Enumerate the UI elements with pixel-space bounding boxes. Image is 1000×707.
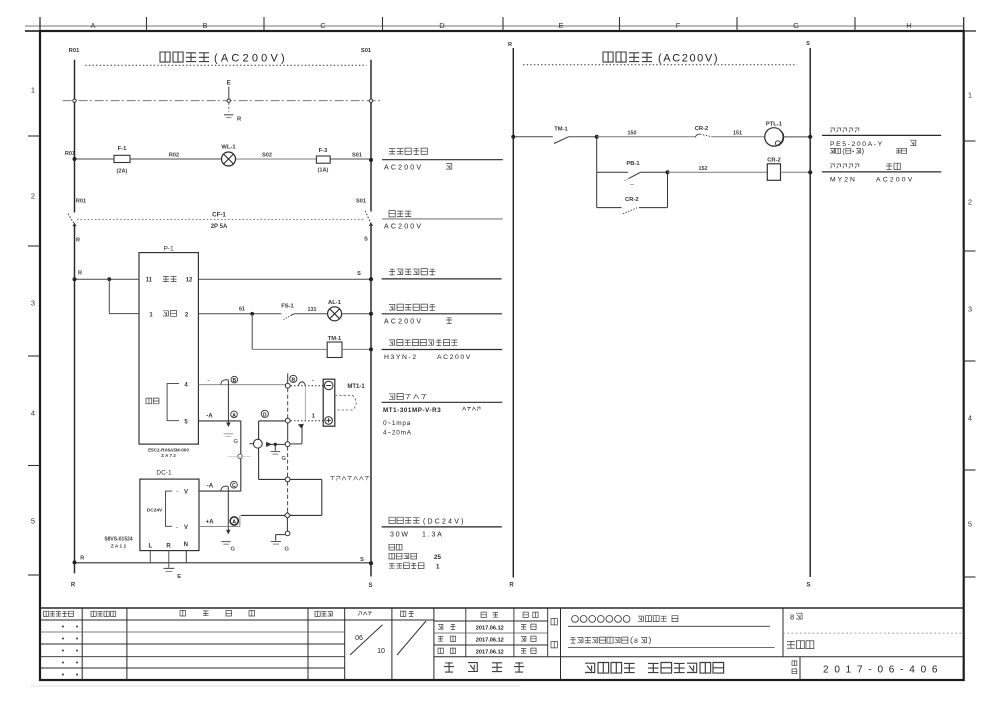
svg-text:P-1: P-1	[163, 246, 174, 253]
svg-text:4: 4	[968, 414, 972, 423]
branch from rung to P-1 terminal 1	[108, 279, 110, 313]
revision header 訂正記号	[91, 611, 96, 616]
svg-text:S01: S01	[361, 48, 372, 54]
revision rows date dots	[62, 626, 64, 628]
svg-text:S01: S01	[352, 153, 362, 159]
approval row 3 check	[438, 648, 443, 653]
title dotted underline	[85, 64, 366, 66]
svg-text:151: 151	[733, 130, 742, 136]
cable marker circle on wire 4	[231, 376, 238, 383]
cable marker circle DC bottom (bold)	[230, 517, 238, 525]
svg-text:PB-1: PB-1	[626, 161, 640, 167]
svg-text:5: 5	[968, 520, 972, 529]
wire label 131	[294, 313, 328, 315]
svg-text:12: 12	[186, 278, 193, 284]
rung 1 power indicator wire	[76, 158, 114, 160]
revision table row lines	[40, 631, 345, 633]
terminal circle mid	[285, 442, 290, 447]
svg-text:A: A	[232, 413, 236, 419]
svg-text:150: 150	[628, 130, 637, 136]
svg-text:Z A 7 2: Z A 7 2	[161, 453, 176, 458]
DC-1 R terminal to earth E	[168, 551, 170, 568]
drawing title cooling water pressure alarm panel	[570, 637, 576, 643]
revision table verticals	[81, 608, 83, 680]
svg-text:F: F	[676, 21, 681, 30]
ground R (earth symbol)	[224, 114, 234, 116]
annotation control power DC24V	[389, 517, 395, 523]
right grid ticks	[964, 140, 976, 142]
svg-text:WL-1: WL-1	[221, 145, 236, 151]
svg-text:(DC24V): (DC24V)	[423, 518, 466, 525]
drain loop with arrow at mid terminal	[266, 443, 285, 445]
svg-text:R: R	[76, 238, 80, 244]
drawing type 回路図	[787, 641, 795, 648]
svg-text:Z A 1 2: Z A 1 2	[111, 544, 127, 550]
bus S vertical (right section)	[809, 48, 811, 577]
svg-text:S: S	[806, 41, 810, 47]
alarm lamp AL-1	[328, 307, 342, 321]
wire 5 drop to DC supply	[240, 421, 242, 491]
svg-text:-A: -A	[206, 412, 213, 419]
circuit breaker CF-1 right pole	[365, 211, 371, 224]
svg-text:H3YN-2: H3YN-2	[384, 354, 418, 361]
svg-text:8: 8	[790, 612, 794, 621]
svg-text:S: S	[364, 237, 368, 243]
cable marker circle net D	[261, 410, 268, 417]
svg-text:R01: R01	[65, 151, 75, 157]
title block top line	[40, 607, 964, 609]
svg-text:S01: S01	[356, 199, 366, 205]
sensor terminal circle minus wire	[285, 383, 290, 388]
svg-text:-: -	[176, 488, 178, 495]
relay rung CR-2	[596, 137, 598, 173]
junction dot R01 rung1	[73, 157, 77, 161]
svg-text:CR-2: CR-2	[767, 157, 781, 163]
svg-text:H: H	[906, 21, 911, 30]
svg-text:-: -	[176, 524, 178, 531]
revision header 訂正者	[315, 611, 320, 616]
svg-text:R01: R01	[76, 199, 86, 205]
junction dot S01 rung1	[369, 158, 373, 162]
annotation delay timer	[389, 340, 395, 345]
power supply block DC-1	[140, 479, 199, 550]
DC-1 internal bracket	[166, 491, 173, 526]
relay coil CR-2	[767, 164, 780, 181]
svg-text:2017.06.12: 2017.06.12	[476, 650, 504, 656]
svg-text:4: 4	[31, 409, 35, 418]
scale column header and slash	[401, 611, 406, 616]
right title dotted underline	[523, 64, 797, 66]
svg-text:L: L	[148, 543, 152, 549]
svg-text:11: 11	[146, 278, 153, 284]
third angle projection 第三角法	[444, 662, 454, 672]
svg-text:3: 3	[968, 305, 972, 314]
approval table rows	[434, 620, 548, 622]
svg-text:(AC200V): (AC200V)	[214, 53, 288, 65]
svg-text:TM-1: TM-1	[554, 126, 568, 132]
dotted divider	[783, 632, 964, 634]
shield line DC pair	[227, 487, 229, 531]
earth tie line (chain line)	[63, 100, 381, 102]
svg-text:AC200V: AC200V	[876, 176, 915, 183]
approval row 2 draft	[438, 637, 443, 642]
svg-text:AC200V: AC200V	[384, 223, 423, 230]
terminal circle bottom of shield chain	[285, 531, 290, 536]
circuit breaker CF-1 left pole	[68, 214, 74, 224]
company name ikeda denki koji	[585, 663, 595, 672]
svg-text:R: R	[71, 583, 76, 589]
shield hook on wire 4	[221, 380, 229, 385]
annotation patrol light	[831, 128, 835, 132]
svg-text:FS-1: FS-1	[281, 303, 294, 309]
svg-text:A: A	[90, 21, 95, 30]
svg-text:CR-2: CR-2	[695, 126, 709, 132]
svg-text:AL-1: AL-1	[328, 300, 342, 306]
svg-text:B: B	[232, 378, 236, 384]
svg-text:1: 1	[968, 91, 972, 100]
svg-text:E: E	[227, 81, 231, 87]
svg-text:C: C	[320, 21, 326, 30]
svg-text:-A: -A	[207, 483, 214, 490]
revision header 訂正年月日	[44, 611, 49, 616]
svg-text:S: S	[357, 271, 361, 277]
left section title 制御電源(AC200V)	[160, 52, 170, 62]
rung power to P-1 (terminal 11 and 12)	[76, 278, 139, 280]
patrol light rung	[513, 136, 553, 138]
terminal circle on R01 bus	[73, 99, 76, 102]
svg-text:+A: +A	[205, 518, 214, 525]
svg-text:(AC200V): (AC200V)	[658, 53, 719, 65]
pressure sensor MT1-1	[323, 379, 335, 426]
bottom supply rung	[76, 562, 371, 564]
annotation patrol light stop	[831, 164, 835, 168]
annotation power indicator lamp	[389, 149, 395, 154]
svg-text:8: 8	[634, 638, 638, 645]
hop arc and drain near sensor	[298, 382, 305, 385]
fuse F-2	[316, 156, 330, 163]
controller block P-1	[139, 253, 198, 445]
svg-text:5: 5	[31, 517, 35, 526]
svg-text:R02: R02	[169, 153, 179, 159]
rung pressure alarm output	[198, 313, 281, 315]
svg-text:D: D	[263, 412, 267, 418]
svg-text:2017.06.12: 2017.06.12	[476, 638, 504, 644]
svg-text:AC200V: AC200V	[384, 318, 423, 325]
svg-text:3: 3	[31, 299, 35, 308]
node E earth tap	[227, 99, 230, 102]
lamp WL-1	[222, 152, 236, 166]
svg-text:E: E	[177, 574, 181, 580]
ground G DC shield	[221, 541, 230, 543]
svg-text:G: G	[231, 547, 236, 553]
timer coil TM-1	[327, 342, 342, 358]
svg-text:2 0 1 7 - 0 6 - 4 0 6: 2 0 1 7 - 0 6 - 4 0 6	[823, 665, 939, 676]
system label 8系	[782, 608, 784, 657]
sensor wire from terminal 4	[198, 384, 287, 386]
approval row 1 design	[438, 624, 443, 629]
patrol light PTL-1	[765, 128, 783, 146]
cable marker circle DC top	[231, 481, 238, 488]
page column header and 06/10	[358, 612, 361, 616]
svg-text:TM-1: TM-1	[328, 336, 342, 342]
dotted wire to sensor minus terminal	[291, 385, 325, 387]
svg-text:06: 06	[355, 635, 363, 642]
svg-text:E: E	[558, 21, 563, 30]
svg-text:DC24V: DC24V	[147, 508, 163, 514]
shield chain vertical	[287, 388, 289, 418]
title block long row line	[434, 656, 964, 658]
svg-text:S02: S02	[262, 153, 272, 159]
svg-text:G: G	[282, 456, 287, 462]
svg-text:V: V	[184, 489, 188, 495]
approval table verticals	[465, 608, 467, 657]
svg-text:4~20mA: 4~20mA	[383, 430, 412, 437]
DC-1 +V wire to sensor loop	[199, 490, 241, 492]
net D terminal circle	[285, 418, 290, 423]
svg-text:131: 131	[308, 307, 317, 313]
diamond node jumper bottom	[284, 512, 290, 518]
revision header 訂正事項	[180, 611, 186, 617]
scan ghost line below frame	[30, 685, 520, 687]
svg-text:PE5-200A-Y: PE5-200A-Y	[830, 141, 884, 148]
svg-text:2: 2	[31, 192, 35, 201]
svg-text:2: 2	[968, 198, 972, 207]
svg-text:152: 152	[699, 166, 708, 172]
svg-text:G: G	[234, 439, 239, 445]
self hold contact CR-2 parallel branch	[596, 172, 598, 207]
svg-text:1: 1	[436, 563, 440, 570]
svg-text:G: G	[285, 547, 290, 553]
svg-text:G: G	[793, 21, 799, 30]
svg-text:61: 61	[239, 306, 245, 312]
cable marker circle near sensor minus	[290, 375, 297, 382]
svg-text:R: R	[166, 543, 171, 549]
svg-text:S8VS-01524: S8VS-01524	[104, 537, 133, 543]
DC-1 L terminal wire	[149, 551, 151, 563]
wire net D to left and down	[259, 420, 286, 422]
svg-text:D: D	[439, 21, 445, 30]
terminal circle jumper top	[285, 477, 290, 482]
circuit breaker CF-1 link line	[77, 219, 363, 221]
junction dot rung1 right	[595, 135, 599, 139]
svg-text:(2A): (2A)	[117, 169, 128, 175]
cable sheath crossing circle	[238, 454, 243, 459]
revision table header bottom	[40, 619, 434, 621]
junction dot TM branch	[250, 312, 254, 316]
approval header date / name	[481, 612, 486, 617]
svg-text:30W: 30W	[390, 532, 410, 539]
terminal circle on S01 bus	[369, 99, 372, 102]
sensor dome	[335, 395, 356, 410]
svg-text:B: B	[291, 377, 295, 383]
svg-text:R: R	[509, 583, 514, 589]
svg-text:AC200V: AC200V	[384, 164, 423, 171]
drawing number cell	[799, 657, 801, 680]
svg-text:(1A): (1A)	[318, 168, 329, 174]
annotation cooling water pressure gauge	[389, 269, 395, 275]
svg-text:2017.06.12: 2017.06.12	[476, 626, 504, 632]
svg-text:E5C2-RX6A5M-000: E5C2-RX6A5M-000	[148, 447, 189, 452]
svg-text:V: V	[184, 525, 188, 531]
junction dot PB parallel	[666, 170, 670, 174]
svg-text:N: N	[184, 542, 188, 548]
svg-text:CF-1: CF-1	[212, 212, 226, 219]
svg-text:25: 25	[434, 554, 441, 561]
svg-text:R01: R01	[69, 48, 80, 54]
svg-text:MY2N: MY2N	[830, 176, 857, 183]
svg-text:MT1-1: MT1-1	[347, 384, 365, 390]
svg-text:F-1: F-1	[118, 146, 127, 152]
svg-text:1: 1	[31, 86, 35, 95]
svg-text:R: R	[80, 555, 84, 561]
left grid ticks	[28, 135, 40, 137]
annotation load list	[389, 544, 395, 550]
svg-text:PTL-1: PTL-1	[766, 122, 783, 128]
DC-1 -V wire to jumper diamond	[199, 526, 240, 528]
bus S01 vertical (left section)	[370, 60, 372, 212]
ground G for sensor shield	[224, 433, 234, 435]
cable marker circle on wire 5	[231, 411, 238, 418]
P-1 input bracket terminals 4 5	[167, 384, 179, 421]
svg-text:S: S	[368, 583, 372, 589]
customer name line	[572, 616, 579, 623]
svg-text:R: R	[508, 42, 512, 48]
svg-text:R: R	[78, 271, 82, 277]
figure name column	[560, 608, 562, 680]
svg-text:1.3A: 1.3A	[422, 532, 444, 539]
svg-text:AC200V: AC200V	[437, 354, 472, 361]
sensor wire from terminal 5	[198, 420, 240, 422]
svg-text:CR-2: CR-2	[625, 197, 639, 203]
svg-text:DC-1: DC-1	[156, 469, 172, 476]
DC-1 N terminal wire	[185, 551, 187, 563]
top grid ticks	[146, 17, 148, 31]
right section title 制御電源(AC200V)	[603, 52, 613, 62]
bus R vertical (right section)	[512, 48, 514, 578]
bus R01 vertical (left section)	[74, 60, 76, 213]
annotation pressure abnormal indication	[389, 305, 395, 311]
svg-text:B: B	[202, 21, 207, 30]
svg-text:0~1mpa: 0~1mpa	[383, 420, 411, 427]
jumper label	[330, 477, 334, 481]
drawing frame outer thin top line	[25, 25, 963, 27]
svg-text:MT1-301MP-V-R3: MT1-301MP-V-R3	[383, 407, 441, 414]
fuse F-1	[114, 155, 130, 162]
timer branch wire	[251, 314, 253, 350]
jumper wire rectangle	[290, 478, 322, 480]
svg-text:2P 5A: 2P 5A	[211, 224, 228, 230]
svg-text:A: A	[232, 520, 236, 526]
svg-text:S: S	[806, 583, 810, 589]
annotation pressure sensor	[389, 394, 395, 400]
svg-text:C: C	[232, 483, 236, 489]
svg-text:10: 10	[377, 648, 385, 655]
frame corner tick marks	[39, 17, 41, 31]
annotation main power	[389, 211, 395, 217]
ground G bottom of shield chain	[271, 541, 281, 543]
svg-text:F-3: F-3	[319, 148, 328, 154]
ground G for drain loop	[271, 451, 281, 453]
svg-text:S: S	[360, 557, 364, 563]
